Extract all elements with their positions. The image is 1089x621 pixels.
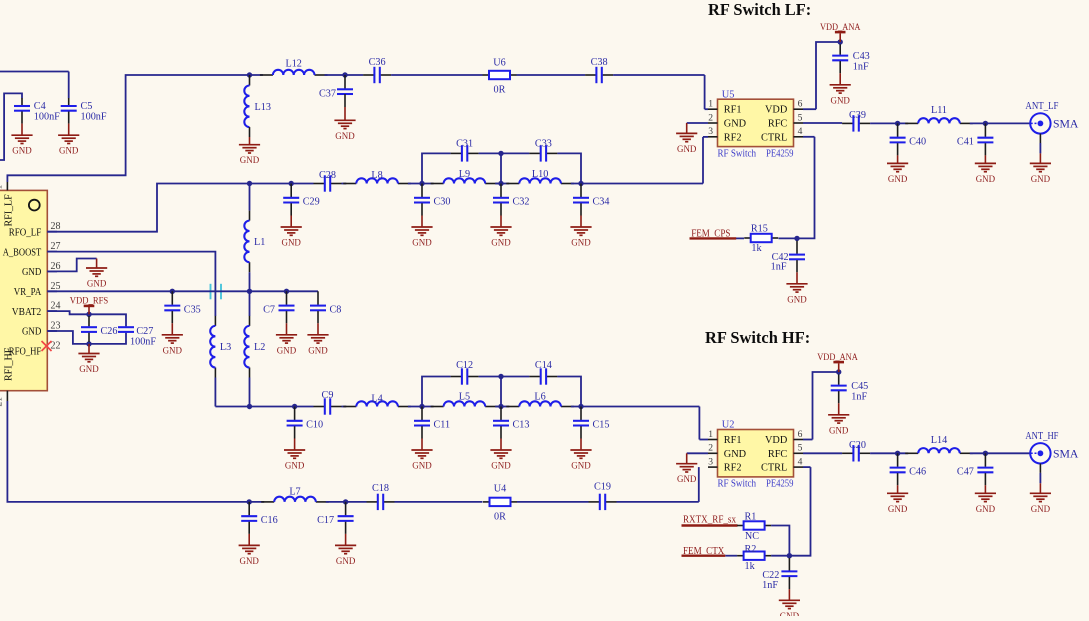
svg-text:GND: GND bbox=[335, 132, 355, 142]
junction bbox=[498, 181, 503, 186]
svg-text:GND: GND bbox=[412, 239, 432, 249]
capacitor C9 bbox=[314, 390, 342, 415]
inductor L12 bbox=[260, 59, 328, 76]
svg-text:C20: C20 bbox=[849, 440, 866, 451]
junction bbox=[86, 312, 91, 317]
svg-text:L9: L9 bbox=[459, 169, 470, 180]
pin 27 A_BOOST bbox=[3, 241, 61, 258]
wire bbox=[47, 311, 89, 314]
wire bbox=[803, 108, 816, 110]
junction bbox=[895, 121, 900, 126]
ground bbox=[11, 124, 32, 157]
svg-text:C35: C35 bbox=[184, 304, 201, 315]
svg-text:6: 6 bbox=[798, 429, 803, 440]
svg-text:GND: GND bbox=[976, 505, 996, 515]
net label FEM_CPS bbox=[690, 228, 737, 239]
inductor L8 bbox=[343, 170, 411, 184]
svg-text:100nF: 100nF bbox=[34, 112, 60, 123]
wire bbox=[557, 377, 581, 407]
inductor L7 bbox=[261, 487, 329, 502]
svg-text:RF1: RF1 bbox=[724, 105, 742, 116]
svg-text:5: 5 bbox=[798, 112, 803, 123]
capacitor C33 bbox=[529, 138, 557, 161]
wire bbox=[479, 376, 530, 378]
junction bbox=[419, 181, 424, 186]
junction bbox=[787, 553, 792, 558]
svg-text:U4: U4 bbox=[494, 484, 506, 495]
wire bbox=[617, 501, 699, 503]
wire bbox=[495, 406, 509, 408]
junction bbox=[284, 289, 289, 294]
svg-text:GND: GND bbox=[829, 426, 849, 436]
svg-text:RF2: RF2 bbox=[724, 463, 742, 474]
svg-text:24: 24 bbox=[51, 301, 61, 312]
svg-text:1nF: 1nF bbox=[771, 262, 787, 273]
svg-text:C26: C26 bbox=[101, 326, 118, 337]
svg-text:4: 4 bbox=[798, 126, 803, 137]
wire bbox=[325, 74, 364, 76]
junction bbox=[86, 341, 91, 346]
capacitor C31 bbox=[451, 138, 479, 161]
svg-text:RFO_HF: RFO_HF bbox=[9, 346, 42, 358]
wire bbox=[47, 184, 313, 232]
svg-text:C17: C17 bbox=[317, 515, 334, 526]
op-amp U5 (RF switch PE4259) bbox=[708, 89, 803, 159]
wire bbox=[0, 71, 69, 73]
capacitor C34 bbox=[570, 184, 609, 249]
svg-text:C9: C9 bbox=[322, 390, 334, 401]
wire bbox=[89, 314, 126, 326]
capacitor C35 bbox=[162, 291, 201, 356]
wire bbox=[517, 501, 589, 503]
wire bbox=[249, 184, 251, 211]
svg-text:26: 26 bbox=[51, 261, 61, 272]
wire bbox=[342, 183, 347, 185]
capacitor C7 bbox=[263, 291, 297, 356]
svg-text:GND: GND bbox=[491, 462, 511, 472]
svg-text:SMA: SMA bbox=[1053, 449, 1079, 461]
pin RFI_HF (bottom pin 21) bbox=[0, 347, 15, 406]
power VDD_ANA bbox=[817, 352, 858, 372]
power VDD_RFS bbox=[70, 296, 108, 315]
resistor R2 bbox=[737, 544, 771, 572]
svg-text:RFO_LF: RFO_LF bbox=[9, 226, 42, 238]
svg-text:L13: L13 bbox=[255, 102, 271, 113]
capacitor C28 bbox=[314, 170, 342, 192]
svg-text:VR_PA: VR_PA bbox=[14, 286, 42, 298]
svg-text:GND: GND bbox=[336, 557, 356, 567]
junction bbox=[289, 181, 294, 186]
svg-text:VDD_ANA: VDD_ANA bbox=[820, 22, 861, 33]
pin RFI_LF (top pin) bbox=[0, 182, 15, 227]
wire bbox=[391, 74, 482, 76]
wire bbox=[214, 378, 216, 407]
svg-text:C34: C34 bbox=[593, 197, 610, 208]
wire bbox=[571, 183, 703, 185]
svg-text:GND: GND bbox=[780, 612, 800, 616]
svg-text:GND: GND bbox=[412, 462, 432, 472]
resistor R15 bbox=[744, 224, 778, 255]
svg-text:GND: GND bbox=[12, 147, 32, 157]
ground bbox=[828, 403, 849, 436]
svg-text:C37: C37 bbox=[319, 89, 336, 100]
junction bbox=[247, 499, 252, 504]
wire bbox=[422, 377, 451, 407]
wire bbox=[479, 152, 530, 154]
wire bbox=[249, 291, 251, 316]
wire bbox=[771, 526, 789, 556]
wire bbox=[249, 272, 251, 291]
svg-text:C46: C46 bbox=[909, 466, 926, 477]
svg-text:GND: GND bbox=[677, 475, 697, 485]
svg-text:C4: C4 bbox=[34, 101, 46, 112]
wire bbox=[613, 74, 705, 76]
svg-text:GND: GND bbox=[59, 147, 79, 157]
svg-text:NC: NC bbox=[745, 531, 759, 542]
svg-text:GND: GND bbox=[277, 346, 297, 356]
capacitor C42 bbox=[771, 241, 805, 273]
pin 26 GND bbox=[22, 261, 61, 278]
capacitor C27 bbox=[118, 326, 156, 348]
svg-text:GND: GND bbox=[888, 175, 908, 185]
capacitor C17 bbox=[317, 502, 356, 567]
svg-text:C14: C14 bbox=[535, 360, 552, 371]
capacitor C47 bbox=[957, 453, 996, 515]
svg-text:VDD_ANA: VDD_ANA bbox=[817, 352, 858, 363]
svg-text:CTRL: CTRL bbox=[761, 463, 787, 474]
inductor L11 bbox=[905, 105, 973, 123]
capacitor C29 bbox=[281, 184, 320, 249]
svg-text:0R: 0R bbox=[494, 85, 506, 96]
op-amp U2 (RF switch PE4259) bbox=[708, 420, 803, 490]
capacitor C11 bbox=[411, 407, 450, 472]
svg-text:25: 25 bbox=[51, 281, 61, 292]
wire bbox=[771, 555, 789, 557]
wire bbox=[7, 401, 264, 502]
wire bbox=[395, 501, 483, 503]
wire bbox=[215, 406, 313, 408]
ground bbox=[78, 344, 99, 375]
svg-text:A_BOOST: A_BOOST bbox=[3, 246, 42, 258]
wire bbox=[970, 452, 1030, 454]
ground bbox=[86, 259, 107, 290]
svg-text:C40: C40 bbox=[909, 136, 926, 147]
svg-text:L2: L2 bbox=[254, 342, 265, 353]
wire bbox=[797, 137, 815, 239]
svg-text:C10: C10 bbox=[306, 420, 323, 431]
ground bbox=[676, 123, 697, 155]
svg-text:VDD: VDD bbox=[765, 435, 788, 446]
svg-text:5: 5 bbox=[798, 443, 803, 454]
junction bbox=[983, 451, 988, 456]
capacitor C10 bbox=[284, 407, 323, 472]
svg-text:R15: R15 bbox=[751, 224, 768, 235]
svg-text:21: 21 bbox=[0, 397, 5, 407]
inductor L2 bbox=[244, 316, 265, 378]
svg-text:4: 4 bbox=[798, 456, 803, 467]
svg-text:GND: GND bbox=[22, 326, 41, 338]
svg-text:GND: GND bbox=[1031, 175, 1051, 185]
capacitor C45 bbox=[831, 374, 869, 403]
svg-text:1k: 1k bbox=[745, 561, 756, 572]
svg-text:L12: L12 bbox=[285, 59, 301, 70]
svg-text:GND: GND bbox=[79, 365, 99, 375]
pin 28 RFO_LF bbox=[9, 221, 61, 238]
svg-text:GND: GND bbox=[571, 239, 591, 249]
pin 23 GND bbox=[22, 321, 61, 338]
svg-text:1: 1 bbox=[708, 429, 713, 440]
wire bbox=[803, 439, 813, 441]
capacitor C12 bbox=[451, 360, 479, 385]
svg-text:1nF: 1nF bbox=[853, 62, 869, 73]
svg-text:C11: C11 bbox=[434, 420, 451, 431]
svg-text:GND: GND bbox=[831, 96, 851, 106]
junction bbox=[292, 404, 297, 409]
junction bbox=[419, 404, 424, 409]
svg-text:1k: 1k bbox=[751, 243, 762, 254]
svg-text:SMA: SMA bbox=[1053, 119, 1079, 131]
resistor R1 bbox=[737, 511, 771, 542]
junction bbox=[247, 289, 252, 294]
svg-text:C13: C13 bbox=[513, 420, 530, 431]
svg-text:C16: C16 bbox=[261, 515, 278, 526]
wire bbox=[691, 237, 745, 239]
wire bbox=[704, 75, 706, 109]
pin 24 VBAT2 bbox=[12, 301, 61, 318]
wire bbox=[699, 439, 708, 441]
svg-text:RF Switch LF:: RF Switch LF: bbox=[708, 0, 811, 19]
wire bbox=[47, 252, 215, 316]
svg-text:GND: GND bbox=[1031, 505, 1051, 515]
wire bbox=[705, 108, 708, 110]
capacitor C36 bbox=[363, 57, 391, 83]
wire bbox=[870, 452, 908, 454]
svg-text:3: 3 bbox=[708, 456, 713, 467]
wire bbox=[803, 452, 842, 454]
capacitor C18 bbox=[367, 483, 395, 510]
svg-text:RFC: RFC bbox=[768, 449, 788, 460]
svg-text:GND: GND bbox=[240, 156, 260, 166]
ground bbox=[58, 124, 79, 157]
svg-text:GND: GND bbox=[724, 119, 747, 130]
IC U? main transceiver (cut off) bbox=[0, 190, 47, 390]
ground bbox=[779, 589, 800, 621]
svg-text:PE4259: PE4259 bbox=[766, 479, 794, 490]
net label RXTX_RF_sx bbox=[682, 515, 738, 526]
svg-text:C30: C30 bbox=[434, 197, 451, 208]
svg-text:C29: C29 bbox=[303, 197, 320, 208]
capacitor C14 bbox=[529, 360, 557, 385]
capacitor C43 bbox=[832, 44, 870, 73]
capacitor C30 bbox=[411, 184, 450, 249]
svg-text:VBAT2: VBAT2 bbox=[12, 306, 42, 318]
svg-text:C36: C36 bbox=[369, 57, 386, 68]
resistor U4 bbox=[483, 484, 517, 523]
inductor L4 bbox=[343, 394, 411, 407]
svg-text:3: 3 bbox=[708, 126, 713, 137]
wire bbox=[970, 122, 1030, 124]
wire bbox=[495, 183, 509, 185]
capacitor C26 bbox=[81, 316, 117, 342]
junction bbox=[498, 404, 503, 409]
capacitor C8 bbox=[307, 291, 341, 356]
svg-text:R2: R2 bbox=[745, 544, 757, 555]
pin 22 RFO_HF bbox=[9, 340, 61, 357]
svg-text:28: 28 bbox=[51, 221, 61, 232]
wire bbox=[779, 237, 798, 239]
svg-text:C45: C45 bbox=[851, 381, 868, 392]
inductor L9 bbox=[431, 169, 499, 184]
svg-text:C33: C33 bbox=[535, 138, 552, 149]
svg-text:C12: C12 bbox=[456, 360, 473, 371]
junction bbox=[838, 39, 843, 44]
junction bbox=[578, 181, 583, 186]
svg-text:0R: 0R bbox=[494, 511, 506, 522]
svg-text:PE4259: PE4259 bbox=[766, 148, 794, 159]
svg-text:23: 23 bbox=[51, 321, 61, 332]
svg-text:C7: C7 bbox=[263, 304, 275, 315]
inductor L6 bbox=[506, 391, 574, 406]
svg-text:CTRL: CTRL bbox=[761, 132, 787, 143]
junction bbox=[578, 404, 583, 409]
svg-text:GND: GND bbox=[787, 295, 807, 305]
svg-text:L6: L6 bbox=[534, 391, 545, 402]
wire bbox=[326, 501, 367, 503]
capacitor C16 bbox=[239, 502, 278, 567]
wire bbox=[698, 467, 700, 502]
svg-text:C31: C31 bbox=[456, 138, 473, 149]
svg-text:100nF: 100nF bbox=[130, 337, 156, 348]
wire bbox=[870, 122, 908, 124]
wire bbox=[789, 467, 810, 556]
wire bbox=[89, 333, 126, 344]
svg-text:1nF: 1nF bbox=[762, 580, 778, 591]
junction bbox=[498, 151, 503, 156]
wire bbox=[500, 377, 502, 407]
svg-text:RF1: RF1 bbox=[724, 435, 742, 446]
junction bbox=[836, 369, 841, 374]
svg-text:L3: L3 bbox=[220, 342, 231, 353]
wire bbox=[687, 122, 708, 124]
ground bbox=[786, 272, 807, 305]
svg-text:VDD: VDD bbox=[765, 105, 788, 116]
junction bbox=[170, 289, 175, 294]
svg-text:C32: C32 bbox=[513, 197, 530, 208]
svg-text:RF Switch: RF Switch bbox=[718, 479, 757, 490]
wire bbox=[249, 378, 251, 407]
svg-text:C15: C15 bbox=[593, 420, 610, 431]
net label FEM_CTX bbox=[682, 546, 726, 557]
svg-text:GND: GND bbox=[888, 505, 908, 515]
capacitor C41 bbox=[957, 123, 996, 184]
svg-text:L10: L10 bbox=[532, 169, 548, 180]
wire bbox=[813, 372, 839, 440]
capacitor C20 bbox=[842, 440, 870, 461]
svg-text:C38: C38 bbox=[591, 57, 608, 68]
ground bbox=[334, 107, 355, 142]
wire bbox=[702, 137, 704, 184]
svg-text:GND: GND bbox=[87, 280, 107, 290]
svg-text:2: 2 bbox=[708, 443, 713, 454]
svg-text:R1: R1 bbox=[745, 511, 757, 522]
inductor L3 bbox=[210, 316, 231, 378]
wire bbox=[500, 153, 502, 183]
svg-text:RXTX_RF_sx: RXTX_RF_sx bbox=[683, 515, 737, 526]
capacitor C39 bbox=[842, 110, 870, 132]
svg-text:VDD_RFS: VDD_RFS bbox=[70, 296, 108, 307]
wire bbox=[408, 183, 434, 185]
svg-text:U5: U5 bbox=[722, 89, 735, 100]
svg-text:RF2: RF2 bbox=[724, 132, 742, 143]
crossover marks bbox=[211, 284, 222, 300]
wire bbox=[557, 153, 581, 183]
inductor L10 bbox=[506, 169, 574, 184]
junction bbox=[794, 236, 799, 241]
svg-text:C28: C28 bbox=[319, 170, 336, 181]
capacitor C32 bbox=[490, 184, 529, 249]
wire bbox=[736, 525, 738, 527]
svg-text:2: 2 bbox=[708, 112, 713, 123]
junction bbox=[247, 404, 252, 409]
junction bbox=[983, 121, 988, 126]
svg-text:C47: C47 bbox=[957, 466, 974, 477]
svg-text:C5: C5 bbox=[81, 101, 93, 112]
svg-text:GND: GND bbox=[976, 175, 996, 185]
capacitor C40 bbox=[887, 123, 926, 184]
wire bbox=[408, 406, 434, 408]
wire bbox=[47, 290, 318, 292]
svg-text:ANT_LF: ANT_LF bbox=[1025, 101, 1058, 112]
svg-text:1: 1 bbox=[708, 99, 713, 110]
svg-text:L1: L1 bbox=[254, 237, 265, 248]
capacitor C4 bbox=[14, 98, 60, 124]
svg-text:C27: C27 bbox=[136, 326, 153, 337]
wire bbox=[725, 555, 737, 557]
junction bbox=[343, 499, 348, 504]
wire bbox=[422, 153, 451, 183]
wire bbox=[47, 331, 89, 344]
capacitor C22 bbox=[762, 558, 797, 591]
svg-text:1nF: 1nF bbox=[851, 392, 867, 403]
inductor L1 bbox=[244, 211, 265, 273]
svg-text:6: 6 bbox=[798, 99, 803, 110]
inductor L13 bbox=[244, 75, 271, 137]
svg-text:L8: L8 bbox=[371, 170, 382, 181]
capacitor C38 bbox=[585, 57, 613, 83]
svg-text:RFC: RFC bbox=[768, 119, 788, 130]
svg-text:22: 22 bbox=[51, 340, 61, 351]
wire bbox=[803, 136, 815, 138]
svg-text:1: 1 bbox=[0, 185, 5, 190]
pin 25 VR_PA bbox=[14, 281, 61, 298]
ground bbox=[830, 73, 851, 106]
svg-text:C18: C18 bbox=[372, 483, 389, 494]
svg-text:GND: GND bbox=[571, 462, 591, 472]
svg-text:L11: L11 bbox=[931, 105, 947, 116]
svg-text:L5: L5 bbox=[459, 391, 470, 402]
svg-text:U2: U2 bbox=[722, 420, 735, 431]
svg-text:GND: GND bbox=[282, 239, 302, 249]
wire bbox=[47, 259, 96, 272]
capacitor C46 bbox=[887, 453, 926, 515]
connector ANT_HF SMA bbox=[1025, 431, 1079, 515]
power VDD_ANA bbox=[820, 22, 861, 42]
wire bbox=[517, 74, 586, 76]
svg-text:U6: U6 bbox=[493, 58, 505, 69]
capacitor C19 bbox=[589, 482, 617, 510]
svg-text:RF Switch: RF Switch bbox=[718, 148, 757, 159]
no-connect X on pin 22 bbox=[42, 341, 52, 351]
